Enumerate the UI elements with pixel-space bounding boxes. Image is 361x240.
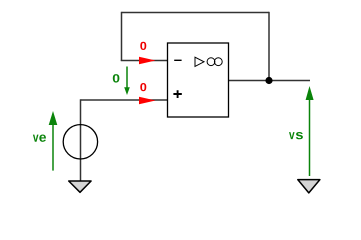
op-amp minus pin label bbox=[174, 59, 181, 61]
wire inverting input bbox=[121, 60, 168, 62]
current arrow into noninverting input bbox=[139, 97, 156, 105]
label 0 differential voltage bbox=[113, 74, 120, 82]
label 0 current inverting bbox=[140, 42, 146, 50]
wire feedback left vertical bbox=[121, 12, 123, 61]
label vs bbox=[289, 132, 295, 139]
op-amp plus pin label bbox=[173, 90, 181, 98]
op-amp U1 body bbox=[168, 43, 229, 117]
wire output bbox=[229, 80, 311, 82]
op-amp gain triangle bbox=[195, 57, 204, 66]
op-amp infinity symbol bbox=[207, 58, 215, 66]
wire feedback top bbox=[122, 12, 270, 14]
ground left bbox=[69, 181, 91, 192]
current arrow into inverting input bbox=[139, 57, 156, 65]
node junction dot bbox=[265, 77, 272, 84]
label ve bbox=[33, 135, 39, 142]
voltage arrow vs bbox=[309, 97, 311, 176]
ground right bbox=[298, 180, 320, 193]
voltage arrow ve bbox=[52, 122, 54, 171]
wire source vertical bbox=[80, 99, 82, 181]
wire feedback right vertical bbox=[268, 12, 270, 81]
wire noninverting input bbox=[81, 99, 168, 101]
voltage source V1 bbox=[63, 125, 97, 159]
voltage arrow 0 between inputs bbox=[126, 67, 128, 90]
label 0 current noninverting bbox=[140, 83, 146, 91]
